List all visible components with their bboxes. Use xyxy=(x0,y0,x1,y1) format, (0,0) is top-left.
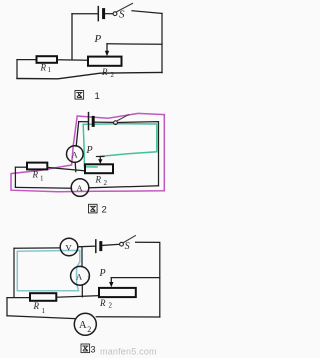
wire: slider tap from P to right vertical xyxy=(107,43,162,45)
wire: black vertical top wire T-junction down to A1 xyxy=(81,247,83,267)
resistor R1 box (fig2) xyxy=(27,163,47,170)
svg-text:1: 1 xyxy=(87,275,90,282)
ammeter A2 circle (fig3) xyxy=(74,313,96,335)
svg-text:2: 2 xyxy=(111,71,115,79)
wire: bottom wire left of A2 xyxy=(7,316,74,319)
wire: R1 to R2 junction row xyxy=(47,167,85,170)
wire: battery to switch xyxy=(102,244,119,245)
switch S3 pivot xyxy=(120,242,124,246)
svg-text:R: R xyxy=(33,301,40,311)
wire: battery to switch xyxy=(95,121,114,123)
switch S1 pivot xyxy=(113,12,117,16)
wire: switch to top-right corner, right vertical xyxy=(136,242,160,317)
svg-text:R: R xyxy=(99,298,106,308)
switch S1 blade xyxy=(117,3,133,11)
wire: top wire left corner to voltmeter xyxy=(14,247,60,249)
svg-text:A: A xyxy=(72,150,79,160)
rheostat R2 box (fig3) xyxy=(99,288,136,297)
wire: top wire from A1 corner to battery xyxy=(79,121,88,123)
svg-text:A: A xyxy=(79,320,87,331)
rheostat R2 box (fig2) xyxy=(85,164,113,173)
wire: right vertical xyxy=(161,13,163,72)
svg-text:A: A xyxy=(76,271,83,281)
wire: below meter to R1-R2 junction row xyxy=(74,162,77,171)
wire: A1 bottom down to R1-R2 junction xyxy=(81,285,83,296)
svg-text:P: P xyxy=(86,145,93,156)
battery cell B3 xyxy=(96,240,101,253)
wire: left vertical to bottom (fig3) xyxy=(6,298,8,316)
wire: row left vertical to R1 xyxy=(15,166,27,168)
svg-text:manfen5.com: manfen5.com xyxy=(100,347,157,357)
rheostat slider arrow P (fig2) xyxy=(97,157,105,165)
wire: bottom wire xyxy=(17,72,162,78)
rheostat R2 box xyxy=(88,57,122,66)
svg-text:S: S xyxy=(119,8,125,20)
svg-text:1: 1 xyxy=(42,307,46,315)
wire: left outer vertical from top corner down to R1 row xyxy=(13,248,15,297)
wire: switch to top-right corner and right vertical xyxy=(118,122,159,186)
rheostat slider arrow P (fig3) xyxy=(109,278,113,288)
wire: row left vertical to R1 (fig3) xyxy=(7,297,30,299)
svg-text:R: R xyxy=(32,170,39,180)
wire: left vertical (fig2) xyxy=(14,167,16,187)
svg-text:P: P xyxy=(99,268,106,279)
svg-text:1: 1 xyxy=(48,66,52,74)
wire: middle vertical from top wire to R1-R2 junction xyxy=(71,14,73,60)
wire: magenta voltmeter-lead loop xyxy=(11,113,164,191)
svg-text:R: R xyxy=(95,175,102,185)
battery cell B1 xyxy=(98,7,103,21)
wire: bottom wire right of A2 xyxy=(96,316,160,318)
wire: voltmeter to battery with T junction to A1 xyxy=(78,245,95,248)
svg-text:S: S xyxy=(125,241,130,252)
rheostat R2 slider arrow P xyxy=(105,44,109,56)
voltmeter V circle xyxy=(60,238,78,256)
svg-text:3: 3 xyxy=(91,344,96,354)
wire: left vertical xyxy=(16,60,18,79)
resistor R1 box (fig3) xyxy=(30,293,56,301)
ammeter A2 circle (fig2 bottom meter) xyxy=(71,179,89,197)
wire: cyan voltmeter lead loop through V and A1 around R1 xyxy=(17,250,80,290)
svg-text:1: 1 xyxy=(40,175,44,183)
caption fig-glyph 图 (fig2) xyxy=(89,204,98,213)
wire: R1 to R2 junction row (fig3) xyxy=(56,296,99,298)
caption fig-glyph 图 (fig1) xyxy=(75,91,84,100)
battery cell B2 xyxy=(89,113,94,130)
ammeter A1 circle (fig2 top meter) xyxy=(67,146,84,163)
resistor R1 box xyxy=(37,56,58,63)
switch S2 blade xyxy=(117,115,128,121)
ammeter A1 circle (fig3) xyxy=(71,266,90,285)
wire: battery to switch xyxy=(105,13,113,15)
switch S3 blade xyxy=(123,236,135,243)
svg-text:V: V xyxy=(66,243,73,253)
wire: teal lead from R2 left end up over top wire to slider tap xyxy=(83,124,157,167)
caption fig-glyph 图 (fig3) xyxy=(81,344,90,353)
svg-text:A: A xyxy=(77,183,84,193)
wire: row from left vertical to R1 xyxy=(17,59,37,61)
wire: switch to top-right corner xyxy=(132,11,162,14)
wire: R1 to R2 xyxy=(57,59,88,61)
wire: bottom wire right of ammeter A2 xyxy=(89,186,159,188)
wire: vertical from top wire down to ammeter A1 xyxy=(76,122,79,146)
svg-text:2: 2 xyxy=(109,302,113,310)
wire: slider tap from P to right vertical (fig3) xyxy=(111,277,160,279)
svg-text:1: 1 xyxy=(95,91,100,102)
svg-text:2: 2 xyxy=(104,179,108,187)
svg-text:R: R xyxy=(101,67,108,77)
svg-text:2: 2 xyxy=(87,325,91,334)
svg-text:R: R xyxy=(40,63,47,73)
svg-text:P: P xyxy=(94,33,102,45)
wire: top wire left segment (battery to left junction) xyxy=(72,13,97,15)
switch S2 pivot xyxy=(114,121,118,125)
wire: bottom wire left of ammeter A2 xyxy=(15,186,71,189)
svg-text:2: 2 xyxy=(102,205,107,216)
